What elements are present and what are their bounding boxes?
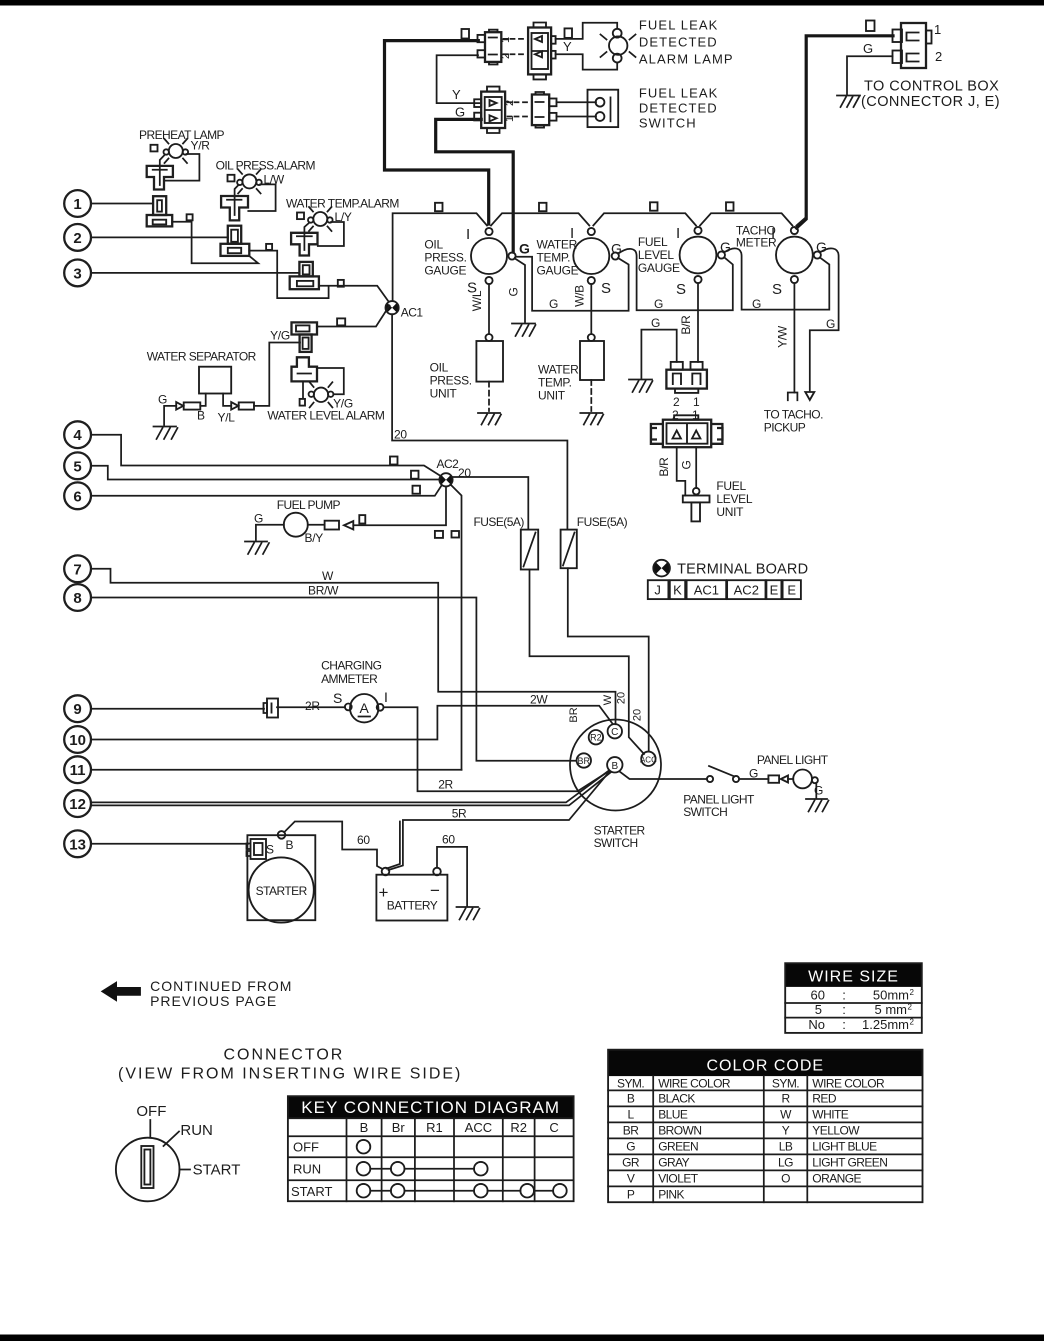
svg-text:UNIT: UNIT [538,389,566,403]
svg-text:GAUGE: GAUGE [638,261,680,275]
wire: lamp loop right [165,154,200,181]
svg-text:PREVIOUS PAGE: PREVIOUS PAGE [150,993,277,1009]
svg-text:BLUE: BLUE [658,1107,688,1121]
wire: circle 2 to plug connector 2 [91,236,228,238]
svg-text:R1: R1 [426,1120,443,1135]
svg-text:−: − [430,881,440,900]
circled 13 [64,830,91,857]
terminal marker [151,145,158,152]
glow plug (preheat) [147,166,173,190]
svg-text:2: 2 [673,395,680,409]
wire: lamp loop [317,368,344,394]
wire: connector to fuel level unit (B/R) [677,447,686,495]
svg-text:G: G [816,239,827,255]
battery - post [433,868,441,876]
svg-text:TERMINAL BOARD: TERMINAL BOARD [677,562,808,578]
svg-text:RUN: RUN [293,1162,321,1177]
circled 9 [64,695,91,722]
wire: fuel gauge G to tacho G (routed box) [725,248,830,309]
svg-text:2R: 2R [305,699,320,713]
svg-text:STARTER: STARTER [256,884,308,898]
svg-text:1.25mm: 1.25mm [862,1017,909,1032]
svg-text:FUEL: FUEL [716,479,746,493]
AC2 node [439,473,452,486]
svg-text:1: 1 [73,196,81,213]
svg-text:20: 20 [458,466,471,480]
wire: fuel gauge S down to connector (B/R) [697,283,699,362]
wire: battery - to ground (60) [437,847,467,906]
AC1 node [386,301,399,314]
fuel level gauge [680,227,725,283]
svg-text:B/R: B/R [657,457,671,477]
svg-text:LIGHT GREEN: LIGHT GREEN [812,1155,887,1169]
oil press alarm lamp [237,169,262,193]
svg-text:PREHEAT LAMP: PREHEAT LAMP [139,128,225,142]
svg-text:13: 13 [69,836,86,853]
water separator box [199,367,231,394]
wire: pump to connector [308,524,325,526]
charging ammeter [345,694,384,722]
fuel level connector upper half [666,362,707,393]
svg-text:FUSE(5A): FUSE(5A) [577,515,628,529]
wire: circle 13 to starter S [91,843,248,845]
wire: circle 5 to AC2 [91,466,440,480]
terminal marker [565,28,573,38]
svg-text:FUEL LEAK: FUEL LEAK [639,18,719,33]
connector to control box [893,23,932,68]
svg-text:OIL: OIL [424,238,443,252]
connector half (large) fuel leak switch [474,87,505,133]
svg-text:GRAY: GRAY [658,1155,689,1169]
wire: water gauge G to fuel gauge G (routed box) [618,249,733,310]
wire: separator right leg [223,394,231,406]
svg-text:W/L: W/L [470,290,484,311]
svg-text:W: W [780,1107,792,1121]
terminal C [608,724,622,738]
starter B post [278,831,286,839]
plug connector 1 [147,196,173,226]
svg-text:BROWN: BROWN [658,1123,701,1137]
terminal marker [337,318,345,325]
svg-text:W: W [602,694,614,705]
wire: AC2 to fuse 1 [453,477,529,530]
svg-text:G: G [752,297,761,311]
tacho meter [776,227,821,283]
svg-text:CONNECTOR: CONNECTOR [224,1047,345,1064]
circled 4 [64,421,91,448]
wire: fuel leak alarm lamp pin1 feed (thick) [385,41,489,224]
svg-text:WIRE COLOR: WIRE COLOR [812,1077,885,1091]
svg-text:1: 1 [504,116,516,122]
starter switch body [570,720,661,811]
wire: plug to lamp/marker [302,381,304,398]
svg-text:10: 10 [69,732,86,749]
svg-text:2: 2 [500,53,512,59]
svg-text:PRESS.: PRESS. [424,251,466,265]
svg-text:AC1: AC1 [694,583,719,598]
svg-text:UNIT: UNIT [430,387,458,401]
svg-text:2R: 2R [438,778,453,792]
svg-text:AC2: AC2 [734,583,759,598]
svg-text:RUN: RUN [180,1122,213,1139]
svg-text:GAUGE: GAUGE [424,264,466,278]
wire: separator left leg [200,394,205,406]
wire: lamp to glow plug [160,155,165,186]
svg-text:7: 7 [73,561,81,578]
wire: plug connector 1 to plug connector 2 chain [172,222,258,264]
svg-text:6: 6 [73,488,81,505]
svg-text:2: 2 [910,988,915,997]
wire to lamp [788,778,793,780]
wire: switch to panel light [739,778,768,780]
svg-text:B: B [611,761,618,772]
wire: fuse 2 to starter switch ACC [568,568,649,751]
glow plug (water temp) [291,233,317,256]
wire: lamp to ground [815,783,817,798]
svg-text:S: S [333,690,342,706]
svg-text:2W: 2W [530,693,548,707]
circled 12 [64,790,91,817]
svg-text:ORANGE: ORANGE [812,1171,861,1185]
terminal marker [338,280,344,287]
svg-text:S: S [266,843,274,857]
svg-text:R2: R2 [510,1120,527,1135]
svg-text:TO TACHO.: TO TACHO. [764,408,823,422]
ground (panel light) [806,799,829,812]
wire: lamp to glow plug [304,223,309,251]
terminal marker on control box wire [866,21,875,32]
svg-text:G: G [549,297,558,311]
svg-text:OFF: OFF [136,1103,166,1120]
svg-text:SYM.: SYM. [617,1077,644,1091]
svg-text:G: G [680,460,694,469]
wire: switch connector pin1 [557,101,597,103]
terminal board node symbol [653,560,670,577]
svg-text:(CONNECTOR J, E): (CONNECTOR J, E) [861,94,1000,110]
svg-text:1: 1 [934,22,941,37]
svg-text:B: B [627,1091,635,1105]
fuel leak detected switch box [588,90,619,127]
connector half (small) fuel leak switch [532,92,557,128]
svg-text:5: 5 [815,1002,822,1017]
svg-text:9: 9 [73,701,81,718]
water temp gauge [573,228,619,284]
svg-text:J: J [654,583,661,598]
key switch symbol [116,1138,180,1202]
svg-text:S: S [676,281,686,298]
svg-text:(VIEW FROM INSERTING WIRE SIDE: (VIEW FROM INSERTING WIRE SIDE) [118,1066,462,1083]
bracket (tacho S pickup end) [788,393,798,401]
svg-text:TO CONTROL BOX: TO CONTROL BOX [864,79,999,95]
terminal markers on I bus [435,203,443,211]
svg-text:C: C [611,727,618,738]
wire: lamp to glow plug [235,185,239,215]
svg-text:WATER TEMP.ALARM: WATER TEMP.ALARM [286,197,399,211]
connector (panel light) [768,775,779,782]
water temp unit [588,334,595,341]
svg-text:G: G [254,512,263,526]
terminal markers below AC2 [435,531,443,538]
wire: plug connector 2 to plug connector 3 chain [249,251,328,299]
svg-text:2: 2 [504,100,516,106]
svg-text:W: W [322,569,334,583]
svg-text:LEVEL: LEVEL [638,248,674,262]
svg-text:G: G [519,241,530,257]
svg-text:GR: GR [622,1155,640,1169]
terminal marker [266,244,272,250]
wire: circle 8 (BR/W) to starter switch BR [91,598,577,761]
svg-text:P: P [627,1187,635,1201]
svg-text:R2: R2 [590,733,602,743]
svg-text:Y/L: Y/L [218,411,236,425]
wire: circle 11 to AC2 vertical [91,769,462,771]
svg-text:G: G [158,393,167,407]
svg-text:B/R: B/R [679,315,693,335]
svg-text:WATER LEVEL ALARM: WATER LEVEL ALARM [267,409,384,423]
terminal marker [300,399,305,406]
svg-text:GREEN: GREEN [658,1139,698,1153]
KEY CONNECTION DIAGRAM table [288,1096,574,1201]
circled 7 [64,555,91,582]
continued-from arrow [101,981,141,1002]
svg-text:O: O [781,1171,790,1185]
svg-text:G: G [654,297,663,311]
battery + post [382,868,390,876]
svg-text:BR: BR [623,1123,639,1137]
svg-text:START: START [193,1162,241,1179]
panel light switch [707,766,739,782]
wire: fuel connector G pin to ground [641,330,676,378]
wire: oil gauge G to water gauge G (routed box) [516,257,629,311]
svg-text:5 mm: 5 mm [875,1002,908,1017]
svg-text:FUEL PUMP: FUEL PUMP [277,498,341,512]
arrow connector [344,521,353,529]
terminal marker [359,515,365,523]
glow plug (oil press) [221,196,248,220]
svg-text:SWITCH: SWITCH [594,836,638,850]
water level alarm lamp [309,382,334,407]
wire: circle 9 to ammeter [91,708,264,710]
svg-text:AMMETER: AMMETER [321,672,378,686]
wire: to ground [164,406,176,425]
fuel leak alarm lamp [601,29,636,63]
circled 10 [64,726,91,753]
circled 2 [64,224,91,251]
svg-text:2: 2 [935,49,942,64]
svg-text:G: G [611,241,622,257]
svg-text:Y/R: Y/R [191,139,211,153]
oil press unit [486,334,493,341]
wire: starter B to battery + (60) [284,822,382,870]
wire: oil gauge S to oil press unit [488,284,490,334]
svg-text:G: G [826,317,835,331]
svg-text:G: G [863,41,873,56]
svg-text:KEY CONNECTION DIAGRAM: KEY CONNECTION DIAGRAM [301,1098,560,1117]
svg-text:G: G [507,287,521,296]
svg-text:BATTERY: BATTERY [387,899,438,913]
svg-text:UNIT: UNIT [716,505,744,519]
wire: pin1 to alarm lamp loop [556,23,618,39]
wire: connector to fuel level unit (G) [695,447,697,488]
wire: alarm plug to AC1 [317,306,390,327]
svg-text:G: G [455,105,465,120]
svg-text:COLOR CODE: COLOR CODE [707,1058,825,1075]
svg-text:S: S [772,281,782,298]
fuel level connector lower half [651,415,723,447]
wire: control box pin2 to ground [847,56,893,95]
svg-text:OIL PRESS.ALARM: OIL PRESS.ALARM [216,159,316,173]
svg-text:YELLOW: YELLOW [812,1123,860,1137]
svg-text:CONTINUED FROM: CONTINUED FROM [150,978,292,994]
ground (fuel level) [629,380,653,393]
svg-text:SYM.: SYM. [772,1077,799,1091]
wire: oil gauge G to ground [515,258,526,322]
svg-text:WHITE: WHITE [812,1107,848,1121]
wire: tacho G to tacho pickup arrow [810,248,839,390]
circled 8 [64,584,91,611]
svg-text:S: S [601,280,611,297]
svg-text:60: 60 [811,988,825,1003]
ground (water temp unit) [580,413,603,425]
svg-text:WATER: WATER [538,363,579,377]
svg-text:VIOLET: VIOLET [658,1171,699,1185]
svg-text:20: 20 [394,428,407,442]
svg-text:LB: LB [779,1139,793,1153]
wire: fuel leak switch G wire (thick) to oil gauge G [436,119,514,252]
wire: control box pin1 to tacho meter I (thick) [797,36,894,228]
svg-text:CHARGING: CHARGING [321,659,381,673]
wire: circle 12 pair to starter switch B [91,771,611,806]
ground (water separator) [154,427,178,440]
svg-text:LEVEL: LEVEL [716,492,752,506]
battery [376,875,447,921]
wire: AC2 down to fuel pump branch [353,486,446,525]
svg-text:2: 2 [73,230,81,247]
svg-text:FUEL: FUEL [638,235,668,249]
svg-text:60: 60 [357,833,370,847]
arrow to tacho pickup [805,392,814,400]
fuel pump [284,513,308,537]
svg-text:AC2: AC2 [437,457,460,471]
ground (oil press unit) [478,413,501,425]
svg-text:8: 8 [73,590,81,607]
svg-text:V: V [627,1171,635,1185]
wire: circle 4 to AC2 [91,435,442,477]
wire: AC1 down to fuse2 [392,314,567,529]
wire: AC2 to circle 11 vertical [451,485,462,770]
fuse 2 [561,530,577,569]
svg-text:4: 4 [73,427,82,444]
svg-text:WIRE SIZE: WIRE SIZE [808,969,899,986]
svg-text:B: B [286,838,294,852]
plug connector 2 [221,226,250,256]
svg-text:SWITCH: SWITCH [639,116,697,131]
svg-text:GAUGE: GAUGE [537,264,579,278]
svg-text:Y/W: Y/W [776,325,790,348]
svg-text:AC1: AC1 [401,306,424,320]
svg-text:WATER SEPARATOR: WATER SEPARATOR [147,350,257,364]
terminal B [607,757,622,772]
arrow connector [781,776,788,783]
circled 6 [64,482,91,509]
starter S connector [247,839,267,859]
water level alarm plug lower [292,357,318,381]
terminal ACC [640,752,657,766]
water temp alarm lamp [308,207,333,231]
svg-text:11: 11 [70,762,86,779]
svg-text:12: 12 [69,796,86,813]
connector (circle 9 wire) [264,699,279,718]
wire: tacho S to pickup [793,283,795,392]
preheat lamp [164,139,189,163]
wire: circle 10 (BR) to starter switch C [91,706,613,740]
valve symbol right [231,402,238,410]
svg-text:G: G [626,1139,635,1153]
svg-text:B: B [360,1120,369,1135]
svg-text:Br: Br [392,1120,406,1135]
oil pressure gauge [471,228,516,284]
svg-text:G: G [651,316,660,330]
fuel level unit [693,488,700,495]
svg-text:ACC: ACC [465,1120,492,1135]
svg-text:FUEL LEAK: FUEL LEAK [639,86,719,101]
svg-text:Y: Y [452,87,461,102]
svg-text:5: 5 [73,458,81,475]
wire: circle 1 to plug connector 1 [91,203,153,205]
starter body [247,835,315,920]
svg-text:20: 20 [632,709,644,721]
panel light lamp [793,770,818,789]
svg-text:FUSE(5A): FUSE(5A) [474,515,525,529]
svg-text:Y: Y [563,39,572,54]
svg-text:G: G [814,784,823,798]
svg-text:ALARM LAMP: ALARM LAMP [639,52,734,67]
mating pin numbers 1,2 [504,39,524,54]
svg-text:BR/W: BR/W [308,584,339,598]
svg-text:Y: Y [782,1123,790,1137]
svg-text:20: 20 [616,692,628,704]
svg-text:K: K [673,583,682,598]
circled 11 [64,756,91,783]
valve symbol left [176,402,183,410]
connector half (large) fuel leak alarm [528,23,556,80]
svg-text:I: I [384,689,388,705]
svg-text:BLACK: BLACK [658,1091,695,1105]
svg-text:60: 60 [442,833,455,847]
svg-text:BR: BR [578,756,591,766]
fuse 1 [521,530,538,570]
svg-text:2: 2 [910,1018,915,1027]
wire: circle 7 (W) to starter switch C [91,569,616,724]
wire: B to panel light switch [620,772,708,780]
svg-text:E: E [770,583,779,598]
wire: lamp loop right [248,184,275,211]
svg-text:PRESS.: PRESS. [430,374,472,388]
svg-text:Y/G: Y/G [270,329,290,343]
ground (oil gauge G) [512,324,536,337]
svg-text:ACC: ACC [640,755,657,764]
svg-text:DETECTED: DETECTED [639,35,718,50]
wire: ammeter I to starter switch B (2R) [384,707,609,791]
svg-text:E: E [787,583,796,598]
terminal BR [577,753,591,767]
svg-text:PINK: PINK [658,1187,684,1201]
svg-text:G: G [720,239,731,255]
svg-text:B/Y: B/Y [305,531,324,545]
svg-text:1: 1 [500,37,512,43]
wire: B to battery + (5R) [389,772,610,871]
svg-text:PANEL LIGHT: PANEL LIGHT [757,753,829,767]
